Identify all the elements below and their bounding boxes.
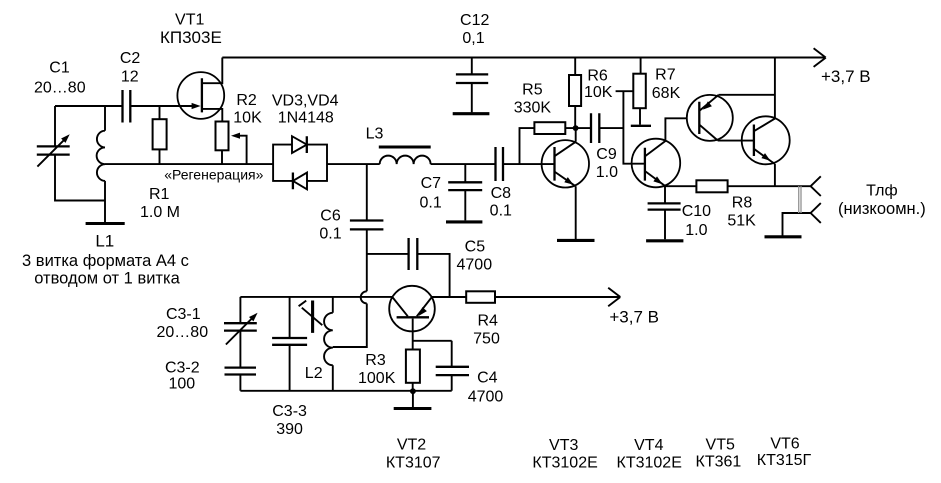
- svg-text:+3,7 В: +3,7 В: [821, 67, 871, 86]
- svg-text:VT6: VT6: [770, 435, 799, 452]
- svg-text:51K: 51K: [727, 213, 756, 230]
- svg-text:КТ3102Е: КТ3102Е: [532, 455, 597, 472]
- svg-text:100: 100: [168, 376, 195, 393]
- svg-text:390: 390: [276, 421, 303, 438]
- svg-text:20…80: 20…80: [34, 80, 86, 97]
- svg-text:C4: C4: [477, 369, 498, 386]
- svg-text:КТ3102Е: КТ3102Е: [617, 455, 682, 472]
- svg-text:C12: C12: [460, 12, 489, 29]
- svg-text:КТ3107: КТ3107: [386, 455, 441, 472]
- svg-text:VT1: VT1: [175, 11, 204, 28]
- svg-text:«Регенерация»: «Регенерация»: [164, 167, 263, 183]
- svg-text:330K: 330K: [514, 99, 552, 116]
- svg-text:R3: R3: [365, 352, 386, 369]
- svg-text:L2: L2: [305, 365, 323, 382]
- svg-text:L3: L3: [366, 125, 384, 142]
- svg-text:VT3: VT3: [549, 437, 578, 454]
- svg-text:КП303Е: КП303Е: [160, 28, 222, 47]
- svg-text:C3-1: C3-1: [166, 306, 201, 323]
- svg-text:1.0: 1.0: [685, 222, 707, 239]
- svg-text:C7: C7: [421, 175, 442, 192]
- svg-text:R1: R1: [149, 186, 170, 203]
- svg-text:C2: C2: [120, 50, 141, 67]
- svg-text:C9: C9: [596, 146, 617, 163]
- svg-text:10K: 10K: [584, 84, 613, 101]
- svg-text:+3,7 В: +3,7 В: [609, 308, 659, 327]
- svg-text:КТ361: КТ361: [696, 454, 742, 471]
- svg-text:C10: C10: [682, 203, 711, 220]
- svg-text:R5: R5: [522, 82, 543, 99]
- svg-text:R8: R8: [732, 195, 753, 212]
- svg-text:4700: 4700: [457, 257, 493, 274]
- svg-text:VT5: VT5: [706, 437, 735, 454]
- svg-text:VT2: VT2: [397, 436, 426, 453]
- svg-text:1.0: 1.0: [596, 164, 618, 181]
- svg-text:(низкоомн.): (низкоомн.): [838, 200, 926, 218]
- svg-text:R6: R6: [587, 67, 608, 84]
- svg-text:100K: 100K: [358, 370, 396, 387]
- svg-text:1N4148: 1N4148: [278, 110, 334, 127]
- svg-text:0.1: 0.1: [490, 203, 512, 220]
- svg-text:10K: 10K: [233, 109, 262, 126]
- svg-text:750: 750: [473, 331, 500, 348]
- svg-text:C3-3: C3-3: [272, 403, 307, 420]
- svg-text:C8: C8: [491, 185, 512, 202]
- svg-text:C5: C5: [465, 239, 486, 256]
- svg-text:VD3,VD4: VD3,VD4: [272, 93, 339, 110]
- svg-text:1.0 М: 1.0 М: [140, 204, 180, 221]
- svg-text:R4: R4: [477, 312, 498, 329]
- svg-text:12: 12: [121, 69, 139, 86]
- svg-text:КТ315Г: КТ315Г: [757, 452, 812, 469]
- svg-text:20…80: 20…80: [157, 324, 209, 341]
- svg-text:C1: C1: [49, 60, 70, 77]
- svg-text:R7: R7: [655, 67, 676, 84]
- svg-text:VT4: VT4: [634, 437, 663, 454]
- svg-text:R2: R2: [236, 92, 257, 109]
- svg-text:0,1: 0,1: [462, 30, 484, 47]
- svg-text:отводом от 1 витка: отводом от 1 витка: [34, 270, 180, 288]
- svg-text:3 витка формата А4 с: 3 витка формата А4 с: [22, 252, 189, 270]
- svg-text:0.1: 0.1: [419, 194, 441, 211]
- svg-text:C6: C6: [320, 207, 341, 224]
- svg-text:C3-2: C3-2: [165, 360, 200, 377]
- svg-text:68K: 68K: [652, 85, 681, 102]
- svg-text:L1: L1: [95, 232, 114, 251]
- svg-text:4700: 4700: [468, 389, 504, 406]
- svg-text:Тлф: Тлф: [866, 183, 898, 200]
- svg-text:0.1: 0.1: [319, 226, 341, 243]
